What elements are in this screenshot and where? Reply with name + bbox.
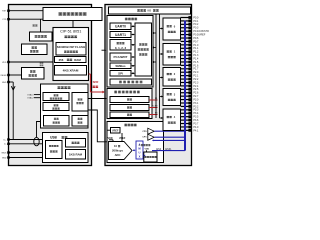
svg-text:GND: GND: [2, 82, 7, 84]
svg-text:4KB XRAM: 4KB XRAM: [63, 68, 79, 72]
svg-text:GND: GND: [2, 157, 7, 159]
svg-text:SPI: SPI: [118, 71, 123, 75]
svg-text:VDD: VDD: [145, 149, 150, 151]
svg-text:200ksps: 200ksps: [112, 149, 123, 153]
svg-text:256: 256: [59, 58, 64, 62]
svg-text:VREF: VREF: [119, 137, 126, 140]
svg-text:CIP-51 8051: CIP-51 8051: [60, 30, 81, 34]
svg-text:U: U: [139, 151, 141, 155]
svg-text:1KB RAM: 1KB RAM: [69, 152, 83, 156]
svg-text:X: X: [139, 155, 141, 159]
svg-text:ADC: ADC: [115, 153, 121, 157]
svg-text:SMBus: SMBus: [115, 64, 125, 68]
svg-text:USB: USB: [50, 136, 57, 140]
svg-text:PCA/WDT: PCA/WDT: [114, 55, 128, 59]
svg-text:UART1: UART1: [115, 33, 126, 37]
svg-text:AIN31: AIN31: [165, 148, 172, 151]
svg-text:P2,P3: P2,P3: [152, 106, 159, 108]
svg-text:REGIN: REGIN: [1, 75, 7, 77]
svg-text:D-: D-: [4, 144, 6, 146]
svg-text:RAM: RAM: [74, 58, 81, 62]
svg-text:UART0: UART0: [115, 25, 126, 29]
svg-text:XTAL1: XTAL1: [27, 94, 34, 97]
svg-text:SFR: SFR: [93, 80, 100, 84]
svg-text:C2D: C2D: [2, 19, 7, 21]
svg-text:VBUS: VBUS: [1, 152, 7, 154]
svg-text:P4.1: P4.1: [193, 129, 199, 132]
svg-text:VDD: VDD: [2, 62, 7, 64]
svg-text:AIN0: AIN0: [156, 148, 162, 151]
svg-text:0, 1, 2, 3: 0, 1, 2, 3: [115, 46, 127, 50]
svg-text:10: 10: [114, 144, 117, 148]
svg-text:VREF: VREF: [112, 129, 119, 132]
svg-text:64/32KB ISP FLASH: 64/32KB ISP FLASH: [57, 45, 85, 49]
svg-text:XTAL2: XTAL2: [27, 97, 34, 100]
